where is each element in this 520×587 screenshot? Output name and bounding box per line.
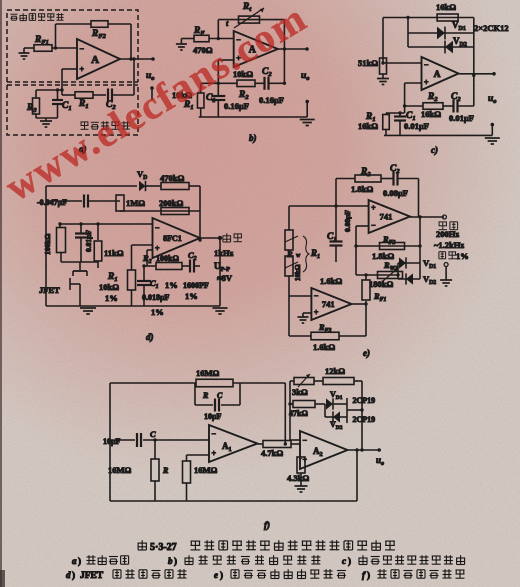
svg-text:f): f)	[264, 520, 270, 530]
svg-text:2×2CK12: 2×2CK12	[474, 23, 509, 33]
svg-text:R: R	[162, 466, 169, 475]
svg-text:1kHz: 1kHz	[214, 248, 234, 258]
svg-text:1%: 1%	[456, 251, 469, 261]
svg-text:2CP19: 2CP19	[353, 396, 376, 405]
svg-text:C: C	[150, 429, 156, 439]
svg-text:0.01μF: 0.01μF	[449, 113, 474, 123]
svg-text:−: −	[155, 223, 160, 232]
svg-text:200kΩ: 200kΩ	[159, 198, 183, 208]
svg-text:5·3-27: 5·3-27	[150, 542, 177, 553]
svg-text:2CP19: 2CP19	[353, 415, 376, 424]
svg-text:10kΩ: 10kΩ	[99, 282, 119, 292]
svg-text:3kΩ: 3kΩ	[292, 387, 308, 397]
svg-text:51kΩ: 51kΩ	[358, 58, 378, 68]
svg-text:~1.2kHz: ~1.2kHz	[434, 240, 464, 250]
svg-text:11kΩ: 11kΩ	[104, 248, 124, 258]
svg-text:16kΩ: 16kΩ	[436, 2, 456, 12]
svg-text:JFET: JFET	[39, 285, 60, 295]
svg-text:0.01μF: 0.01μF	[404, 121, 429, 131]
svg-text:A: A	[91, 54, 99, 66]
svg-text:+: +	[424, 78, 429, 87]
svg-text:16MΩ: 16MΩ	[196, 368, 220, 378]
svg-text:-0.047μF: -0.047μF	[37, 198, 67, 207]
svg-text:4.7kΩ: 4.7kΩ	[261, 448, 283, 458]
svg-text:16MΩ: 16MΩ	[194, 465, 218, 475]
svg-text:1%: 1%	[165, 280, 178, 290]
svg-text:w: w	[296, 253, 301, 259]
svg-text:b: b	[168, 556, 173, 566]
svg-text:−: −	[212, 430, 217, 439]
svg-text:): )	[72, 570, 75, 580]
svg-text:200Hz: 200Hz	[436, 229, 459, 239]
svg-text:−: −	[314, 291, 319, 300]
svg-text:e: e	[214, 570, 218, 580]
svg-text:e): e)	[363, 348, 370, 358]
svg-text:+: +	[155, 244, 160, 253]
svg-text:c: c	[342, 556, 346, 566]
svg-text:−: −	[80, 44, 85, 53]
svg-text:−: −	[424, 61, 429, 70]
svg-text:4.3kΩ: 4.3kΩ	[287, 473, 309, 483]
svg-text:R: R	[286, 249, 293, 259]
svg-text:a: a	[72, 556, 77, 566]
svg-text:8FC1: 8FC1	[163, 234, 182, 243]
svg-text:16MΩ: 16MΩ	[108, 465, 132, 475]
svg-text:16kΩ: 16kΩ	[421, 109, 441, 119]
svg-text:): )	[78, 556, 81, 566]
svg-text:10μF: 10μF	[103, 437, 121, 446]
svg-text:47kΩ: 47kΩ	[289, 409, 308, 418]
svg-text:JFET: JFET	[80, 571, 104, 581]
svg-text:b): b)	[249, 133, 257, 143]
svg-text:A: A	[434, 70, 441, 80]
svg-text:+: +	[371, 204, 376, 213]
svg-text:180kΩ: 180kΩ	[369, 279, 393, 289]
svg-text:10kΩ: 10kΩ	[294, 264, 302, 281]
svg-text:): )	[174, 556, 177, 566]
svg-text:0.16μF: 0.16μF	[259, 95, 284, 105]
svg-text:0.16μF: 0.16μF	[224, 101, 249, 111]
svg-text:470kΩ: 470kΩ	[160, 173, 184, 183]
svg-text:0.01μF: 0.01μF	[84, 230, 93, 252]
svg-text:12kΩ: 12kΩ	[325, 366, 345, 376]
svg-text:16kΩ: 16kΩ	[358, 121, 378, 131]
svg-text:741: 741	[322, 299, 335, 309]
svg-text:0.08μF: 0.08μF	[383, 188, 408, 198]
svg-text:c): c)	[431, 145, 438, 155]
svg-text:1%: 1%	[105, 293, 118, 303]
svg-text:1.6kΩ: 1.6kΩ	[313, 342, 335, 352]
svg-text:C: C	[217, 391, 223, 400]
svg-text:): )	[348, 556, 351, 566]
svg-text:R: R	[202, 391, 209, 400]
svg-text:100kΩ: 100kΩ	[156, 254, 179, 263]
svg-text:10μF: 10μF	[204, 412, 222, 421]
svg-text:0.018μF: 0.018μF	[142, 293, 170, 302]
svg-text:1.6kΩ: 1.6kΩ	[320, 276, 342, 286]
svg-text:+: +	[314, 308, 319, 317]
svg-text:−: −	[371, 221, 376, 230]
svg-text:1MΩ: 1MΩ	[126, 198, 145, 208]
svg-text:0.08μF: 0.08μF	[343, 210, 352, 232]
svg-text:d: d	[66, 570, 71, 580]
svg-text:d): d)	[146, 332, 154, 342]
svg-text:741: 741	[380, 212, 393, 222]
svg-text:): )	[220, 570, 223, 580]
svg-text:1%: 1%	[185, 291, 198, 301]
svg-text:): )	[367, 570, 370, 580]
svg-text:1%: 1%	[151, 307, 164, 317]
svg-text:−: −	[303, 436, 308, 445]
svg-text:+: +	[212, 449, 217, 458]
svg-text:100kΩ: 100kΩ	[43, 234, 52, 255]
svg-text:1.8kΩ: 1.8kΩ	[351, 184, 373, 194]
svg-text:1600PF: 1600PF	[183, 281, 209, 290]
svg-text:+: +	[80, 65, 85, 74]
